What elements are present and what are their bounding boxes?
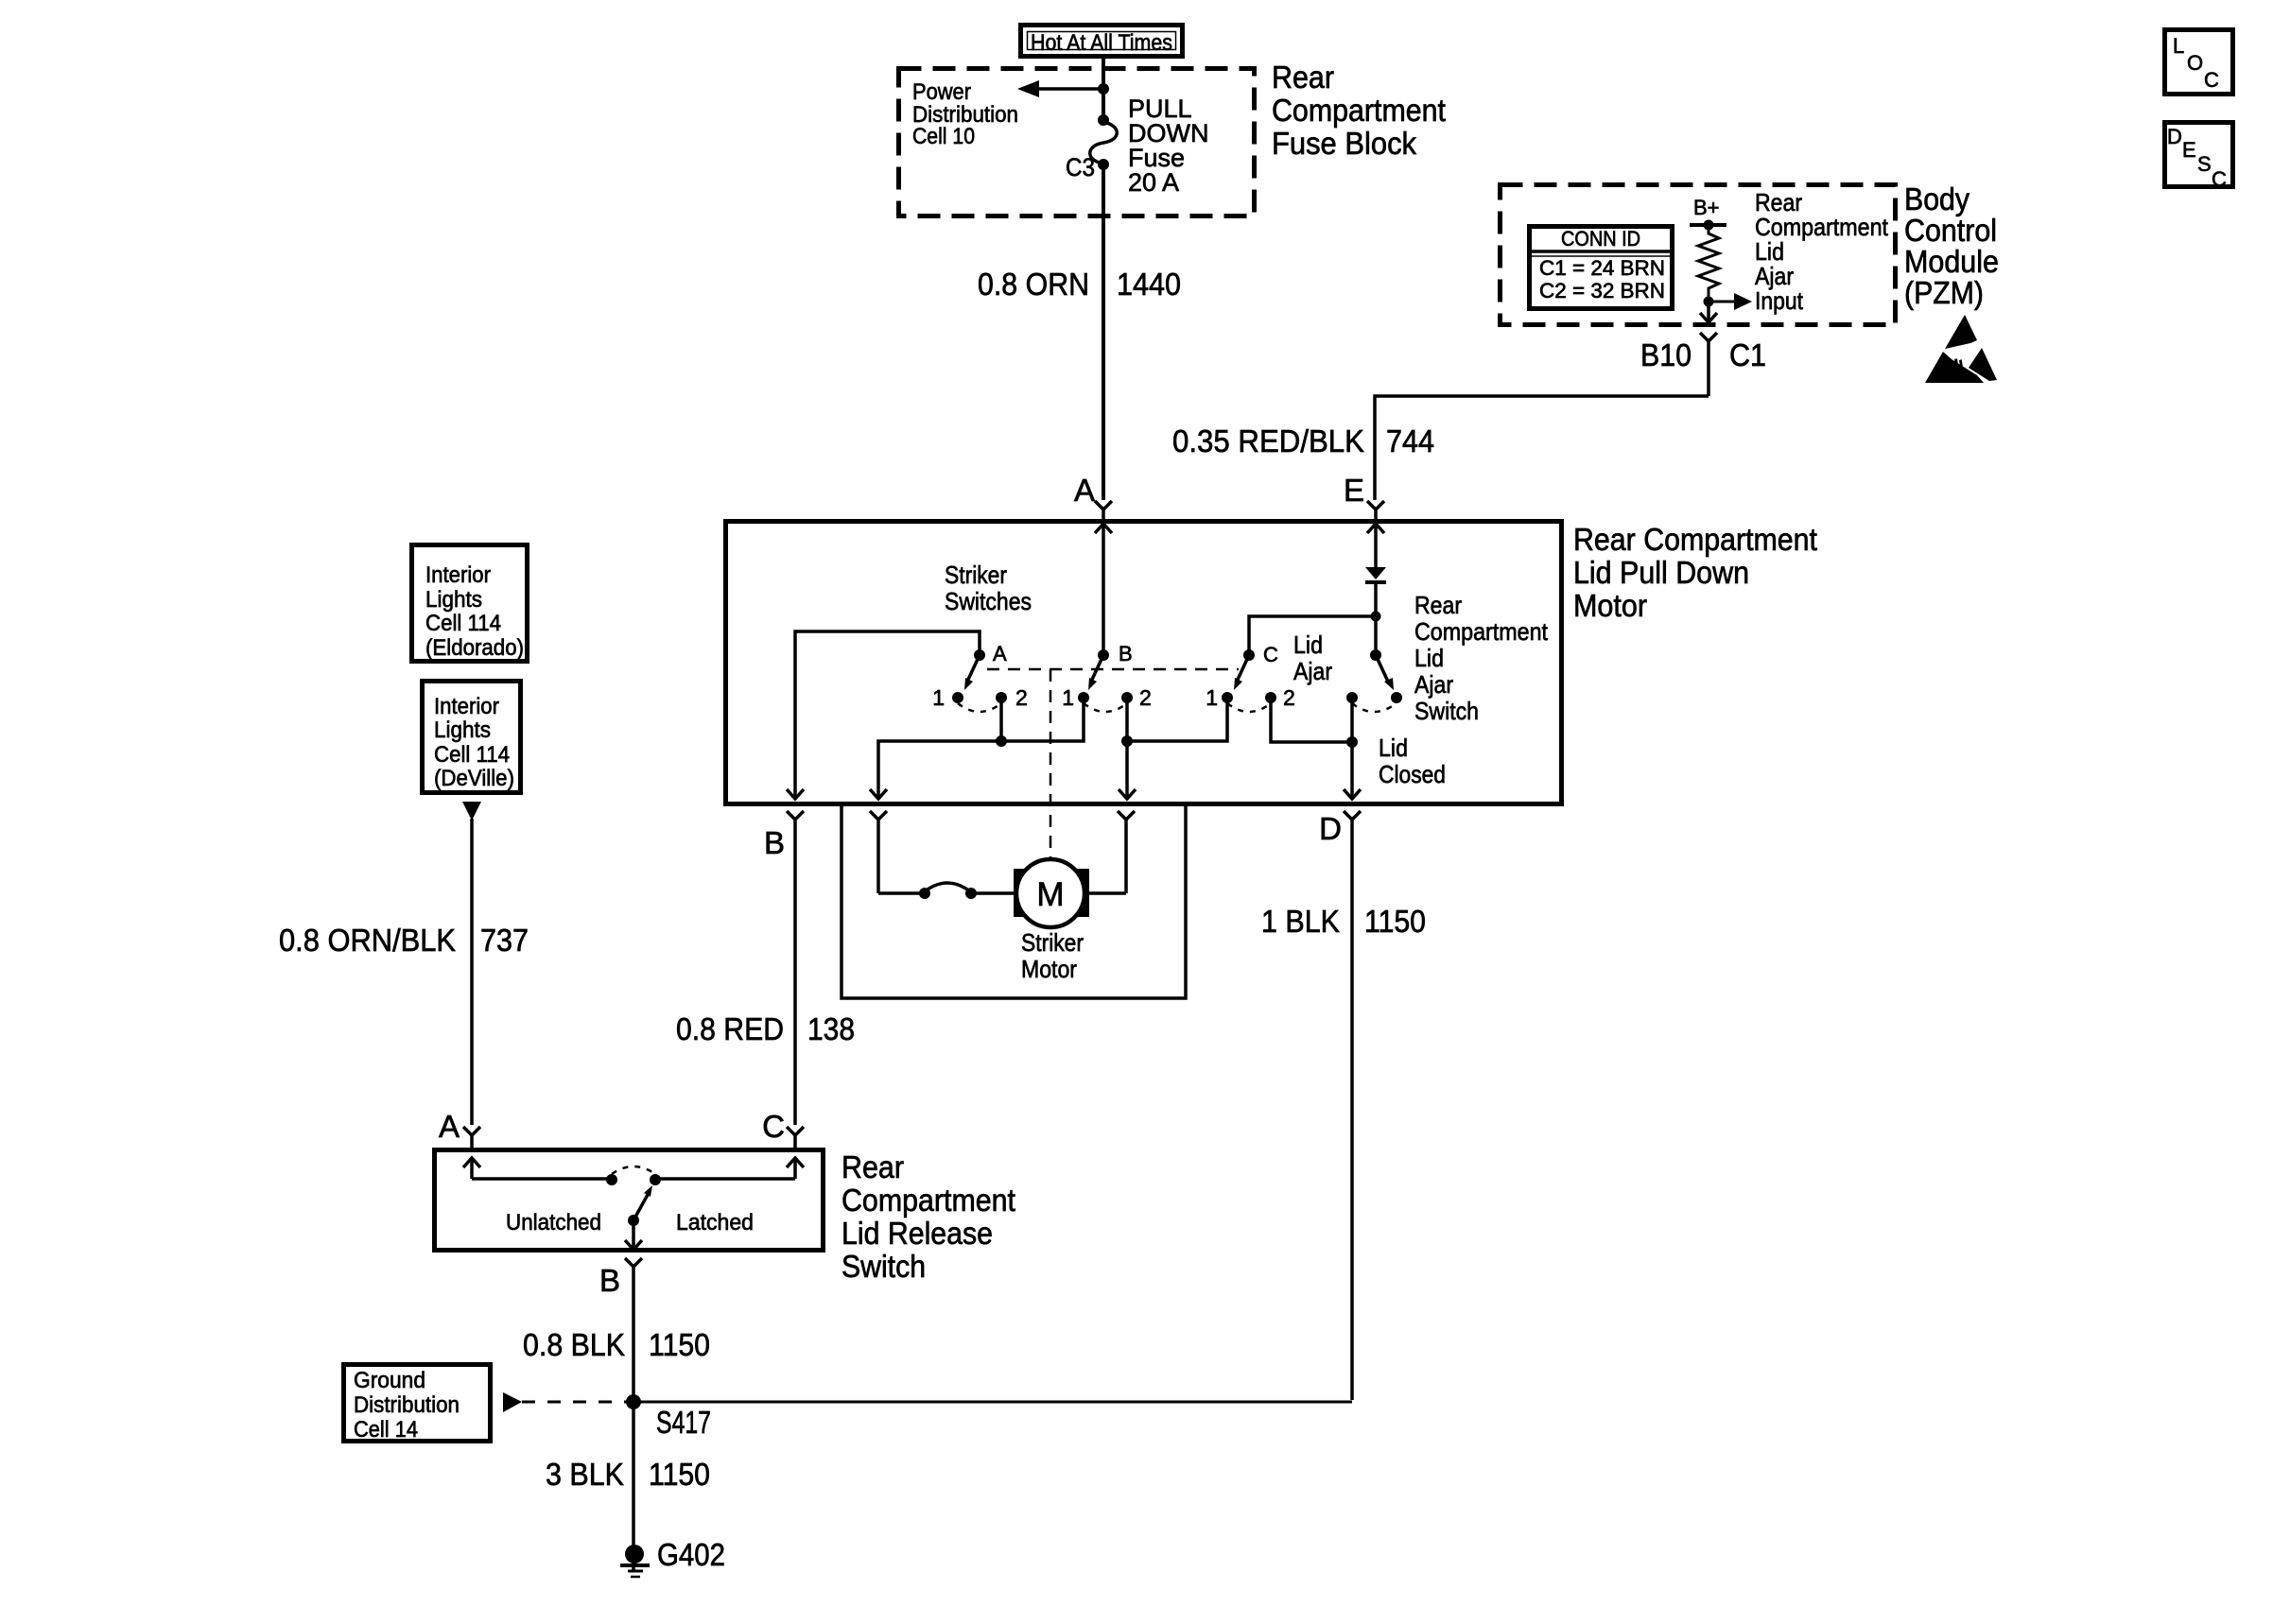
svg-text:Latched: Latched (676, 1210, 754, 1235)
svg-text:Switches: Switches (945, 587, 1032, 615)
rear compartment fuse block dashed box (899, 69, 1255, 216)
label Striker Motor (1021, 928, 1084, 983)
svg-text:Rear: Rear (842, 1149, 904, 1184)
connector A fork (1095, 501, 1112, 510)
arrow from interior lights (462, 802, 481, 821)
interior lights cell 114 DeVille box (423, 682, 521, 793)
label Lid Closed (1379, 734, 1446, 788)
svg-text:138: 138 (807, 1011, 855, 1046)
svg-text:D: D (2167, 125, 2182, 148)
svg-text:Interior: Interior (425, 562, 491, 588)
striker switch B (1078, 649, 1133, 712)
wire from diode node to lid ajar switch pivot (1374, 616, 1378, 655)
svg-text:Rear: Rear (1272, 60, 1334, 95)
svg-text:M: M (1036, 876, 1064, 913)
svg-text:0.8 BLK: 0.8 BLK (523, 1327, 625, 1362)
svg-text:Ajar: Ajar (1414, 670, 1453, 699)
svg-text:C1 = 24 BRN: C1 = 24 BRN (1539, 256, 1665, 280)
connector B fork (release switch) (625, 1258, 642, 1572)
svg-text:0.8 ORN: 0.8 ORN (978, 267, 1089, 302)
svg-text:Interior: Interior (434, 694, 499, 719)
striker motor M (1014, 859, 1126, 927)
svg-text:B10: B10 (1640, 337, 1692, 372)
svg-text:Ground: Ground (354, 1368, 425, 1393)
diode (1365, 567, 1386, 616)
wire label 0.8 ORN/BLK 737 (279, 923, 529, 958)
svg-text:1150: 1150 (649, 1457, 710, 1492)
node at power distribution branch (1098, 83, 1109, 95)
wire label 0.8 RED 138 (676, 1011, 855, 1046)
svg-text:(DeVille): (DeVille) (434, 766, 514, 791)
wire from Hot At All Times into fuse block (1102, 57, 1105, 120)
label Striker Switches (945, 561, 1032, 615)
splice S417 (626, 1394, 641, 1409)
release switch blade (628, 1185, 652, 1226)
wire label 0.35 RED/BLK 744 (1172, 423, 1434, 458)
svg-text:Closed: Closed (1379, 760, 1446, 788)
wire from blade pivot down with arrow (625, 1220, 642, 1250)
svg-text:C2 = 32 BRN: C2 = 32 BRN (1539, 279, 1665, 302)
ESD sensitive device symbol (1925, 315, 1997, 383)
svg-text:B+: B+ (1693, 196, 1720, 219)
wire 1440 from fuse to connector A (1102, 164, 1105, 500)
B+ terminal bar (1690, 220, 1726, 231)
striker motor box (842, 805, 1186, 998)
wire 744 from B10 to connector E (1375, 396, 1709, 500)
wire E input with up arrow (1367, 524, 1384, 567)
body control module dashed box (1501, 185, 1896, 325)
svg-text:G402: G402 (657, 1537, 725, 1572)
wire branch arrow to Power Distribution (1017, 80, 1103, 97)
svg-text:Lights: Lights (425, 587, 482, 613)
svg-text:C: C (2212, 167, 2227, 191)
svg-text:744: 744 (1386, 423, 1434, 458)
svg-text:Rear Compartment: Rear Compartment (1573, 522, 1817, 557)
wire from resistor to pin B10 with down arrow (1700, 302, 1717, 324)
svg-text:2: 2 (1283, 685, 1295, 710)
svg-text:S: S (2197, 152, 2212, 176)
svg-text:Hot At All Times: Hot At All Times (1031, 30, 1172, 56)
svg-text:1: 1 (1206, 685, 1218, 710)
striker switch C (1222, 649, 1276, 712)
svg-text:A: A (439, 1109, 460, 1144)
node lid closed bus (1346, 736, 1358, 748)
svg-text:Body: Body (1904, 181, 1969, 216)
rear compartment lid pull down motor box (726, 522, 1562, 804)
down arrow striker right leg (1119, 789, 1136, 799)
striker switch A (952, 649, 1007, 712)
striker motor switch (878, 883, 1014, 899)
svg-text:B: B (599, 1263, 620, 1298)
svg-text:Motor: Motor (1021, 955, 1077, 983)
svg-text:A: A (993, 642, 1007, 665)
label Power Distribution Cell 10 (912, 79, 1018, 149)
node B2 bus (1121, 735, 1133, 747)
wire label 3 BLK 1150 (546, 1457, 710, 1492)
node A2 bus (996, 735, 1007, 747)
svg-text:A: A (1074, 473, 1095, 508)
svg-text:1150: 1150 (649, 1327, 710, 1362)
svg-text:O: O (2187, 51, 2203, 75)
svg-text:L: L (2173, 34, 2184, 58)
dashed wire to S417 (522, 1401, 628, 1404)
CONN ID table box (1529, 227, 1673, 309)
svg-text:Rear: Rear (1414, 591, 1462, 619)
svg-text:Lid: Lid (1379, 734, 1408, 762)
svg-text:Switch: Switch (842, 1249, 926, 1284)
svg-text:3 BLK: 3 BLK (546, 1457, 624, 1492)
ground bus wire from S417 to D leg (633, 1401, 1352, 1404)
node below diode (1371, 612, 1381, 622)
svg-text:0.8 ORN/BLK: 0.8 ORN/BLK (279, 923, 456, 958)
wire from switch A pivot to connector B leg (795, 631, 980, 799)
bus wire from B1 to striker leg (878, 698, 1084, 799)
ground distribution cell 14 box (344, 1365, 491, 1443)
bus wire from B2 node to C1 (1127, 698, 1227, 741)
DESC legend box (2165, 123, 2233, 192)
node at resistor bottom (1704, 297, 1714, 307)
svg-text:D: D (1319, 811, 1342, 846)
down arrow at B leg (787, 789, 804, 799)
wire from B2 down (1125, 698, 1129, 799)
down arrow striker left leg (870, 789, 887, 799)
svg-text:E: E (2182, 138, 2196, 162)
fuse PULL DOWN 20A (element C3) (1090, 114, 1118, 170)
svg-text:Module: Module (1904, 244, 1999, 279)
label Body Control Module (PZM) (1904, 181, 1999, 310)
svg-text:1150: 1150 (1364, 904, 1426, 939)
Hot At All Times box (1021, 26, 1183, 57)
svg-text:Ajar: Ajar (1293, 657, 1332, 685)
label PULL DOWN Fuse 20 A (1128, 95, 1208, 197)
svg-text:Lid: Lid (1293, 631, 1323, 659)
svg-text:Input: Input (1755, 286, 1804, 315)
connector A fork (release switch) (463, 1127, 480, 1150)
LOC legend box (2165, 30, 2233, 95)
label Rear Compartment Lid Ajar Switch (1414, 591, 1549, 725)
wire from C2 to lid closed bus (1271, 698, 1352, 742)
connector B fork (787, 811, 804, 1125)
svg-text:Compartment: Compartment (842, 1183, 1015, 1218)
release switch up arrow at C (787, 1158, 804, 1179)
connector B10 C1 (fork) (1700, 333, 1717, 396)
svg-text:Switch: Switch (1414, 697, 1479, 725)
svg-text:1: 1 (1062, 685, 1074, 710)
striker connector fork right (1118, 811, 1135, 893)
ground G402 (620, 1545, 650, 1577)
wire from A2 down to bus (999, 698, 1003, 741)
striker connector fork left (870, 811, 887, 893)
label Rear Compartment Lid Pull Down Motor (1573, 522, 1817, 623)
arrow to Input (1709, 293, 1752, 310)
svg-text:C1: C1 (1729, 337, 1766, 372)
svg-text:Cell 10: Cell 10 (912, 124, 975, 149)
svg-text:C3: C3 (1066, 153, 1095, 181)
svg-text:(Eldorado): (Eldorado) (425, 635, 524, 661)
rear compartment lid ajar switch (1346, 649, 1402, 712)
svg-text:1440: 1440 (1117, 267, 1181, 302)
svg-text:Cell 14: Cell 14 (354, 1417, 418, 1443)
label Lid Ajar (1293, 631, 1332, 685)
svg-text:Power: Power (912, 79, 971, 105)
connector E fork (1367, 501, 1384, 510)
label Rear Compartment Lid Ajar Input (1755, 188, 1889, 315)
svg-text:0.35 RED/BLK: 0.35 RED/BLK (1172, 423, 1364, 458)
wire label 1 BLK 1150 (1261, 904, 1426, 939)
svg-text:(PZM): (PZM) (1904, 275, 1984, 310)
wire label 0.8 ORN 1440 (978, 267, 1181, 302)
gang dashed link to striker motor (1050, 669, 1052, 857)
svg-text:B: B (1119, 642, 1133, 665)
label Rear Compartment Fuse Block (1272, 60, 1446, 161)
svg-text:Unlatched: Unlatched (506, 1210, 601, 1235)
wire from diode node to switch C (1249, 616, 1376, 655)
svg-text:Distribution: Distribution (354, 1392, 460, 1418)
svg-text:Compartment: Compartment (1414, 617, 1549, 646)
wire lid closed contact to connector D leg (1350, 698, 1354, 799)
svg-text:2: 2 (1139, 685, 1152, 710)
svg-text:CONN ID: CONN ID (1561, 227, 1640, 251)
label Rear Compartment Lid Release Switch (842, 1149, 1015, 1284)
wire 737 down to release switch A (470, 819, 474, 1125)
svg-text:Striker: Striker (1021, 928, 1084, 957)
svg-text:E: E (1344, 473, 1364, 508)
svg-text:Motor: Motor (1573, 588, 1647, 623)
resistor (lid ajar input pull-up) (1698, 225, 1719, 302)
svg-text:2: 2 (1015, 685, 1028, 710)
svg-text:Fuse Block: Fuse Block (1272, 126, 1416, 161)
svg-text:S417: S417 (656, 1405, 711, 1440)
release switch up arrow at A (463, 1158, 480, 1179)
svg-text:B: B (764, 825, 785, 860)
svg-text:Striker: Striker (945, 561, 1007, 589)
svg-text:Cell 114: Cell 114 (425, 611, 501, 636)
interior lights cell 114 Eldorado box (412, 545, 528, 662)
svg-text:Control: Control (1904, 213, 1997, 248)
gang dashed link line (987, 668, 1239, 671)
svg-text:C: C (762, 1109, 785, 1144)
arrow from ground distribution (503, 1392, 522, 1412)
svg-text:737: 737 (480, 923, 529, 958)
wire label 0.8 BLK 1150 (523, 1327, 710, 1362)
svg-text:Lid Pull Down: Lid Pull Down (1573, 555, 1749, 590)
svg-text:Lights: Lights (434, 717, 491, 743)
svg-text:1 BLK: 1 BLK (1261, 904, 1340, 939)
connector D fork (1344, 811, 1361, 1400)
rear compartment lid release switch box (435, 1150, 824, 1251)
svg-text:Cell 114: Cell 114 (434, 742, 510, 768)
wire A input with up arrow (1095, 524, 1112, 655)
down arrow D leg (1344, 789, 1361, 799)
svg-text:0.8 RED: 0.8 RED (676, 1011, 784, 1046)
release switch contacts (472, 1166, 795, 1185)
svg-text:Compartment: Compartment (1272, 93, 1446, 128)
svg-text:20 A: 20 A (1128, 168, 1179, 197)
svg-text:C: C (1263, 643, 1278, 666)
svg-text:1: 1 (932, 685, 945, 710)
svg-text:C: C (2204, 68, 2219, 92)
svg-text:Lid: Lid (1414, 644, 1444, 672)
connector C fork (release switch) (787, 1127, 804, 1150)
svg-text:Lid Release: Lid Release (842, 1216, 993, 1251)
